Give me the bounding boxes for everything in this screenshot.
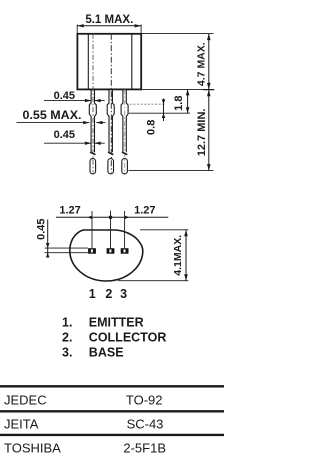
svg-text:1.8: 1.8 — [173, 96, 185, 111]
svg-text:1: 1 — [89, 287, 96, 301]
svg-text:2.: 2. — [62, 331, 72, 345]
svg-text:COLLECTOR: COLLECTOR — [89, 331, 167, 345]
svg-text:0.8: 0.8 — [146, 120, 158, 135]
svg-text:1.27: 1.27 — [59, 205, 80, 217]
svg-text:0.45: 0.45 — [35, 218, 47, 239]
svg-text:5.1 MAX.: 5.1 MAX. — [85, 14, 133, 26]
svg-text:BASE: BASE — [89, 346, 124, 360]
svg-text:2-5F1B: 2-5F1B — [123, 441, 166, 456]
svg-text:4.1MAX.: 4.1MAX. — [172, 235, 184, 276]
svg-text:TOSHIBA: TOSHIBA — [4, 441, 61, 456]
svg-text:3.: 3. — [62, 346, 72, 360]
svg-text:EMITTER: EMITTER — [89, 316, 144, 330]
svg-text:JEITA: JEITA — [4, 416, 39, 431]
svg-text:0.55 MAX.: 0.55 MAX. — [23, 108, 82, 122]
svg-text:TO-92: TO-92 — [126, 393, 163, 408]
svg-text:SC-43: SC-43 — [127, 416, 164, 431]
svg-text:JEDEC: JEDEC — [4, 393, 47, 408]
svg-text:1.: 1. — [62, 316, 72, 330]
svg-text:1.27: 1.27 — [134, 205, 155, 217]
svg-text:0.45: 0.45 — [54, 90, 75, 102]
svg-text:4.7 MAX.: 4.7 MAX. — [195, 42, 207, 86]
svg-text:3: 3 — [120, 287, 127, 301]
svg-text:2: 2 — [105, 287, 112, 301]
svg-text:12.7 MIN.: 12.7 MIN. — [196, 109, 208, 157]
svg-text:0.45: 0.45 — [54, 129, 75, 141]
